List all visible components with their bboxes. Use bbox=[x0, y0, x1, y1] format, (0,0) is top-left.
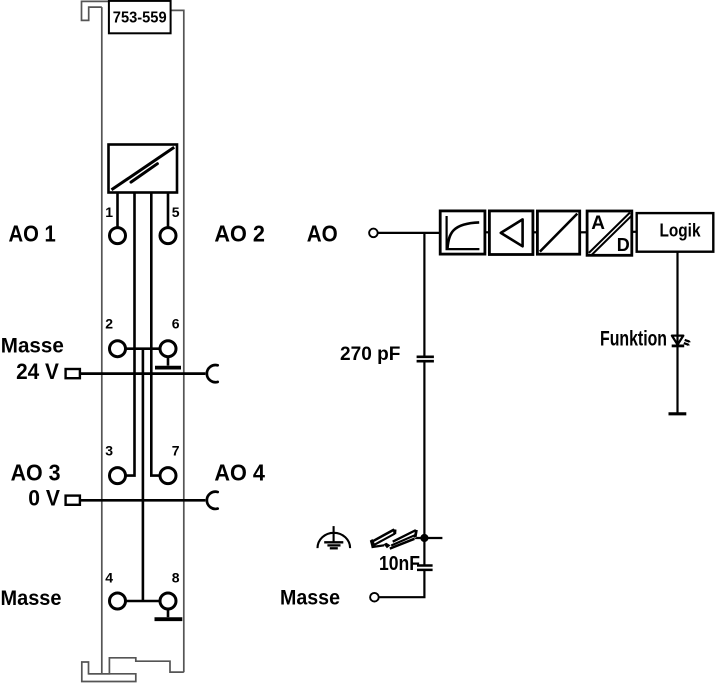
module left edge bbox=[101, 7, 103, 674]
power jumper contact bar below terminal 8 bbox=[155, 617, 183, 621]
DIN rail 3D icon bbox=[370, 528, 418, 549]
ground bar below LED bbox=[669, 412, 687, 415]
DAC short parallel line bbox=[131, 164, 157, 182]
wire stub below terminal 8 bbox=[167, 609, 170, 617]
wire B4 to Logik bbox=[632, 231, 637, 233]
terminal 4 bbox=[110, 593, 126, 609]
LED D1 triangle bbox=[672, 336, 683, 345]
wire Logik down to LED bbox=[676, 252, 678, 346]
label box 753-559 bbox=[109, 1, 171, 33]
B2 triangle bbox=[501, 219, 523, 246]
svg-text:Masse: Masse bbox=[1, 587, 62, 610]
wire B2 to B3 bbox=[533, 231, 538, 233]
wire DAC pin to terminal 5 bbox=[167, 193, 170, 228]
wire capacitor down to junction bbox=[423, 361, 425, 565]
DAC diagonal bbox=[112, 147, 175, 190]
24V field terminal square bbox=[66, 369, 80, 378]
svg-text:AO 2: AO 2 bbox=[214, 221, 265, 247]
module bottom profile bbox=[89, 658, 184, 674]
wire 0V rail bbox=[81, 499, 205, 502]
LED emission arrows bbox=[684, 340, 689, 345]
terminal 3 bbox=[110, 468, 126, 484]
svg-text:3: 3 bbox=[105, 443, 113, 459]
svg-text:8: 8 bbox=[172, 570, 180, 586]
junction dot bbox=[420, 534, 428, 542]
module top-left release tab hook bbox=[82, 1, 110, 20]
rail left end cap bbox=[370, 539, 376, 547]
converter block B3 bbox=[537, 211, 579, 254]
svg-text:AO: AO bbox=[307, 220, 338, 246]
svg-text:5: 5 bbox=[172, 204, 180, 220]
terminal 8 bbox=[160, 593, 176, 609]
capacitor C1 270pF plates bbox=[417, 357, 434, 361]
rail back flange inner edge bbox=[374, 534, 395, 546]
terminal 5 bbox=[160, 228, 176, 244]
Logik box bbox=[637, 213, 714, 252]
functional earth symbol bbox=[318, 526, 351, 548]
svg-text:AO 3: AO 3 bbox=[11, 460, 61, 486]
svg-text:Masse: Masse bbox=[1, 334, 64, 357]
wire link terminal 4 to 8 bbox=[126, 600, 160, 603]
B1 exponential curve bbox=[448, 222, 480, 248]
rail white silhouette bbox=[370, 528, 418, 549]
B4 double diagonal bbox=[589, 213, 632, 255]
terminal 2 bbox=[110, 341, 126, 357]
0V field terminal square bbox=[66, 496, 80, 505]
terminal 7 bbox=[160, 468, 176, 484]
svg-text:4: 4 bbox=[105, 570, 113, 586]
DAC box U1 (D/A converter) bbox=[109, 145, 178, 193]
svg-text:Masse: Masse bbox=[280, 587, 340, 610]
A/D converter block B4 bbox=[587, 211, 632, 255]
svg-text:AO 1: AO 1 bbox=[9, 221, 56, 247]
terminal 1 bbox=[110, 228, 126, 244]
power jumper contact 24V (C shape) bbox=[207, 365, 218, 382]
module outline (753-559 bus terminal body) bbox=[82, 1, 184, 681]
wire capacitor to Masse corner bbox=[379, 570, 425, 597]
svg-text:270 pF: 270 pF bbox=[340, 343, 400, 365]
svg-text:1: 1 bbox=[105, 204, 113, 220]
rail front flange inner edge bbox=[391, 535, 415, 546]
svg-text:753-559: 753-559 bbox=[113, 9, 167, 26]
wire 24V rail bbox=[81, 372, 205, 375]
rail back flange right end cap bbox=[393, 529, 397, 534]
capacitor C2 10nF plates bbox=[417, 566, 433, 570]
filter block B1 (limiter curve) bbox=[440, 211, 485, 254]
wire Masse center bus bbox=[142, 349, 145, 601]
wire DAC pin to terminal 7 bbox=[151, 193, 160, 476]
wire junction down to capacitor bbox=[423, 233, 425, 356]
rail bottom-left edge bbox=[372, 545, 385, 547]
wire AO to filter block bbox=[378, 232, 440, 234]
rail front flange bottom edge bbox=[390, 539, 415, 549]
wire B1 to B2 bbox=[485, 231, 490, 233]
B1 axes bbox=[447, 216, 480, 249]
svg-text:AO 4: AO 4 bbox=[214, 460, 265, 486]
svg-text:24 V: 24 V bbox=[16, 359, 59, 384]
svg-text:2: 2 bbox=[105, 316, 113, 332]
svg-text:0 V: 0 V bbox=[28, 486, 60, 511]
wire junction horizontal at DIN rail bbox=[410, 537, 442, 539]
svg-text:D: D bbox=[617, 235, 630, 255]
wire B3 to B4 bbox=[580, 231, 587, 233]
terminal 6 bbox=[160, 341, 176, 357]
LED cathode bar bbox=[672, 344, 685, 347]
wires: DAC pins bbox=[118, 193, 169, 618]
wire DAC pin to terminal 3 bbox=[126, 193, 135, 476]
power jumper contact 0V (C shape) bbox=[207, 492, 218, 509]
svg-text:7: 7 bbox=[172, 443, 180, 459]
rail front flange ridge bbox=[393, 530, 416, 542]
rail notch bbox=[384, 543, 391, 549]
wire DAC pin to terminal 1 bbox=[116, 193, 119, 228]
wire LED to ground bbox=[676, 346, 678, 414]
rail back flange ridge bbox=[372, 530, 395, 542]
module right edge bbox=[171, 10, 184, 672]
module bottom foot bbox=[82, 662, 136, 682]
node Masse open terminal bbox=[370, 593, 379, 602]
svg-text:A: A bbox=[591, 213, 605, 234]
svg-text:6: 6 bbox=[172, 316, 180, 332]
svg-text:10nF: 10nF bbox=[379, 552, 420, 575]
rail right end cap bbox=[414, 530, 418, 538]
B3 diagonal bbox=[540, 214, 577, 252]
wire link terminal 2 to 6 bbox=[126, 347, 160, 350]
amplifier block B2 bbox=[489, 211, 533, 255]
wire stub below terminal 6 bbox=[167, 357, 170, 366]
svg-text:Logik: Logik bbox=[660, 221, 702, 241]
power jumper contact bar below terminal 6 bbox=[155, 366, 181, 370]
node AO open terminal bbox=[369, 229, 378, 238]
svg-text:Funktion: Funktion bbox=[600, 328, 667, 351]
